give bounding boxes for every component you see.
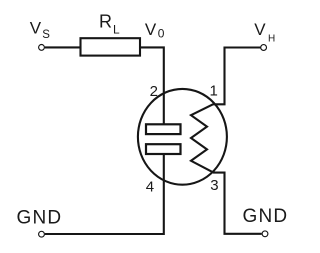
svg-text:R: R bbox=[99, 12, 112, 32]
svg-text:1: 1 bbox=[210, 82, 218, 99]
svg-text:H: H bbox=[268, 33, 275, 44]
svg-text:S: S bbox=[42, 29, 50, 41]
svg-text:GND: GND bbox=[243, 206, 289, 227]
svg-text:V: V bbox=[254, 20, 266, 39]
svg-text:V: V bbox=[145, 20, 157, 39]
svg-text:4: 4 bbox=[146, 178, 154, 195]
svg-text:V: V bbox=[30, 18, 42, 37]
svg-text:GND: GND bbox=[17, 207, 63, 228]
svg-text:3: 3 bbox=[210, 177, 218, 194]
svg-text:0: 0 bbox=[158, 26, 165, 40]
svg-text:L: L bbox=[113, 22, 120, 36]
svg-text:2: 2 bbox=[150, 83, 158, 100]
